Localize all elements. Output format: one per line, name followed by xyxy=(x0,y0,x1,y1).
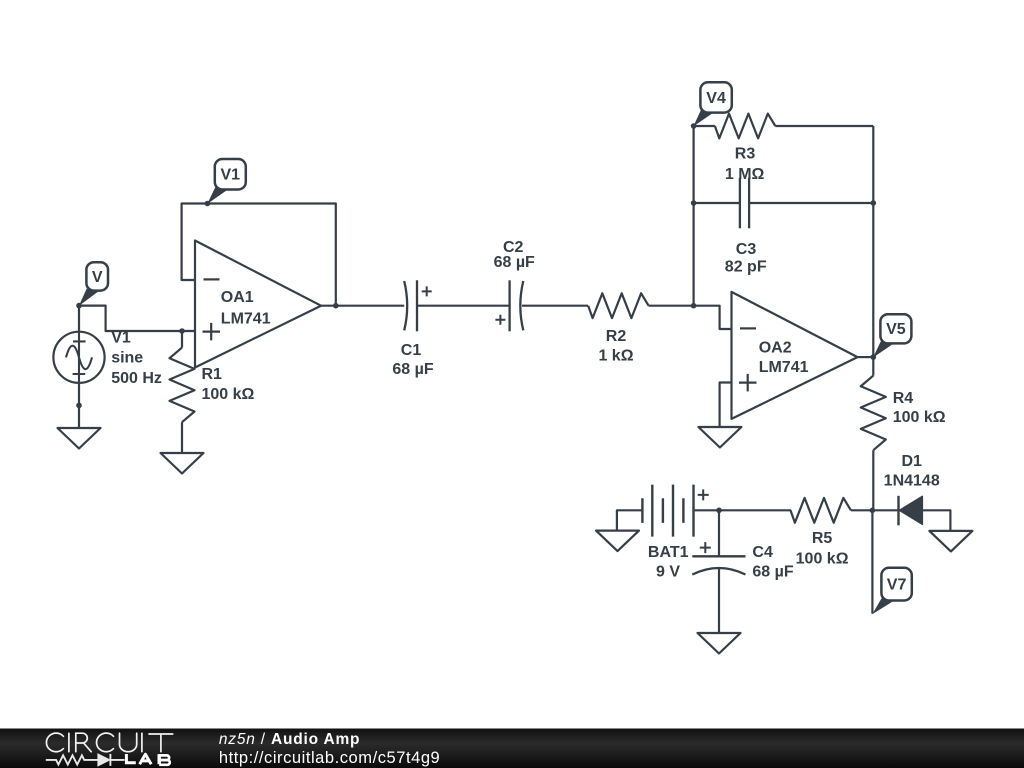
value label C1 68 µF xyxy=(392,342,433,378)
svg-text:V7: V7 xyxy=(887,577,907,594)
resistor R2 xyxy=(588,293,648,318)
wire OA2 noninverting input to ground xyxy=(720,383,732,428)
voltage source V1 (sine, 500 Hz) xyxy=(53,332,104,383)
wire battery node to R5 xyxy=(719,509,791,511)
junction node OA1 output node xyxy=(333,303,339,309)
op-amp OA1 LM741 xyxy=(195,241,321,368)
wire C4 to ground xyxy=(718,569,720,633)
probe V tail xyxy=(79,289,99,306)
junction node at V1 top / probe V xyxy=(76,303,82,309)
wire R5 to D1 node xyxy=(851,509,873,511)
capacitor C3 (82 pF) xyxy=(740,178,749,229)
part label OA1 LM741 xyxy=(221,289,271,327)
wire C3 to right rail xyxy=(749,202,873,204)
junction node R3 left node / probe V4 xyxy=(691,123,697,129)
wire R2 to OA2 inverting node xyxy=(649,305,694,307)
wire OA1 inverting input feedback to output xyxy=(182,204,336,306)
wire battery node down to C4 xyxy=(718,510,720,556)
svg-text:OA2: OA2 xyxy=(759,340,792,357)
wire D1 anode to ground xyxy=(922,510,950,531)
probe V7 flag box xyxy=(881,568,911,601)
svg-text:LM741: LM741 xyxy=(759,359,809,376)
OA1 inverting input pin (-) xyxy=(204,278,220,280)
C4 plus terminal mark xyxy=(700,542,711,553)
ground (below R1) xyxy=(161,453,204,474)
wire OA1 output to C1 xyxy=(321,305,404,307)
junction node OA2 output node xyxy=(871,354,877,360)
junction node V1 probe attach on feedback wire xyxy=(205,201,211,207)
resistor R5 xyxy=(791,498,851,523)
ground (D1 anode) xyxy=(929,531,972,552)
value label C2 68 µF xyxy=(494,239,535,271)
wire D1 node down to probe V7 xyxy=(871,510,873,613)
svg-text:82 pF: 82 pF xyxy=(725,258,767,275)
CircuitLab logo: CIRCUIT wordmark xyxy=(46,733,172,752)
wire left rail to C3 xyxy=(694,202,740,204)
svg-text:nz5n / Audio Amp: nz5n / Audio Amp xyxy=(219,731,360,748)
svg-text:500 Hz: 500 Hz xyxy=(111,370,162,387)
wire R4 to D1 node xyxy=(872,450,874,510)
capacitor C4 (polarized, 68 uF) xyxy=(692,542,745,574)
wire left rail to R3 xyxy=(694,125,715,127)
diode D1 1N4148 xyxy=(899,496,923,526)
svg-text:C3: C3 xyxy=(736,241,757,258)
CircuitLab logo: LAB wordmark xyxy=(126,754,169,765)
wire OA2 inverting input stub xyxy=(694,306,732,329)
svg-text:100 kΩ: 100 kΩ xyxy=(796,551,849,568)
probe V4 flag box xyxy=(700,82,731,112)
svg-text:100 kΩ: 100 kΩ xyxy=(893,409,946,426)
wire left feedback rail xyxy=(692,126,694,306)
value label R4 100 kΩ xyxy=(893,390,946,426)
resistor R1 xyxy=(170,348,195,423)
svg-text:sine: sine xyxy=(111,350,143,367)
svg-text:V4: V4 xyxy=(706,90,726,107)
svg-text:1N4148: 1N4148 xyxy=(884,473,940,490)
svg-text:1 MΩ: 1 MΩ xyxy=(725,166,765,183)
svg-text:D1: D1 xyxy=(901,453,922,470)
svg-text:C4: C4 xyxy=(752,544,773,561)
probe V4 tail xyxy=(693,110,713,126)
svg-text:LM741: LM741 xyxy=(221,310,271,327)
wire OA1 + input to R1 xyxy=(181,331,183,348)
junction node C3 left node xyxy=(691,200,697,206)
OA2 inverting input pin (-) xyxy=(740,327,756,329)
svg-text:9 V: 9 V xyxy=(656,563,680,580)
svg-text:68 µF: 68 µF xyxy=(494,254,535,271)
ground (OA2 noninverting input) xyxy=(698,427,741,448)
probe V5 flag box xyxy=(880,314,911,343)
capacitor C1 (polarized, 68 uF) xyxy=(404,280,432,331)
value label C4 68 µF xyxy=(752,544,793,580)
op-amp OA2 LM741 xyxy=(732,292,858,419)
probe V5 tail xyxy=(873,341,893,357)
svg-text:BAT1: BAT1 xyxy=(648,544,689,561)
ground (BAT1 negative) xyxy=(596,531,639,552)
probe V1 tail xyxy=(207,187,227,204)
OA2 noninverting input pin (+) xyxy=(739,374,757,392)
svg-text:V1: V1 xyxy=(221,167,241,184)
ground (below C4) xyxy=(698,633,741,654)
svg-text:R4: R4 xyxy=(893,390,914,407)
probe V7 tail xyxy=(872,598,893,614)
svg-text:68 µF: 68 µF xyxy=(752,563,793,580)
svg-text:OA1: OA1 xyxy=(221,289,254,306)
wire right feedback rail xyxy=(872,126,874,357)
ground (below source V1) xyxy=(58,428,101,449)
junction node BAT1/C4/R5 node xyxy=(716,508,722,514)
junction node at V1 bottom xyxy=(76,403,82,409)
wire BAT1 positive to node xyxy=(694,509,720,511)
svg-text:C1: C1 xyxy=(401,342,422,359)
value label V1 sine 500 Hz xyxy=(111,329,162,387)
wire BAT1 negative to ground xyxy=(617,510,643,530)
svg-text:R2: R2 xyxy=(606,328,627,345)
wire R3 to right rail xyxy=(775,125,873,127)
svg-text:100 kΩ: 100 kΩ xyxy=(202,386,255,403)
junction node R4/R5/D1 node xyxy=(870,508,876,514)
wire probe-V node to OA1 noninverting input xyxy=(79,306,195,331)
svg-text:R1: R1 xyxy=(202,366,223,383)
svg-text:68 µF: 68 µF xyxy=(392,361,433,378)
wire R1 to ground xyxy=(181,422,183,453)
junction node C3 right node xyxy=(871,200,877,206)
value label R1 100 kΩ xyxy=(202,366,255,403)
junction node OA2 inverting input node xyxy=(691,303,697,309)
wire OA2 output to R4 xyxy=(872,357,874,376)
svg-text:R3: R3 xyxy=(735,146,756,163)
probe V1 flag box xyxy=(215,159,246,190)
footer bar xyxy=(0,729,1024,768)
part label BAT1 9 V xyxy=(648,544,689,580)
battery BAT1 9 V xyxy=(642,485,708,537)
part label D1 1N4148 xyxy=(884,453,940,490)
svg-text:V: V xyxy=(92,269,103,286)
resistor R3 xyxy=(715,114,775,139)
value label R2 1 kΩ xyxy=(598,328,633,364)
svg-text:1 kΩ: 1 kΩ xyxy=(598,348,633,365)
wire C1 to C2 xyxy=(417,305,510,307)
wire OA2 output stub xyxy=(858,356,874,358)
capacitor C2 (polarized, 68 uF) xyxy=(495,280,523,331)
BAT1 plus terminal mark xyxy=(698,489,709,500)
svg-text:V5: V5 xyxy=(886,321,906,338)
value label R3 1 MΩ xyxy=(725,146,765,183)
part label OA2 LM741 xyxy=(759,340,809,376)
value label R5 100 kΩ xyxy=(796,530,849,567)
wire C2 to R2 xyxy=(522,305,588,307)
value label C3 82 pF xyxy=(725,241,767,275)
svg-text:V1: V1 xyxy=(111,329,131,346)
CircuitLab logo: resistor-diode glyph xyxy=(46,754,125,766)
wire node to D1 cathode xyxy=(872,509,897,511)
probe V flag box xyxy=(86,262,108,290)
resistor R4 xyxy=(861,376,886,451)
svg-text:R5: R5 xyxy=(812,530,833,547)
junction node OA1 noninverting input node xyxy=(179,328,185,334)
svg-text:http://circuitlab.com/c57t4g9: http://circuitlab.com/c57t4g9 xyxy=(219,749,440,767)
OA1 noninverting input pin (+) xyxy=(203,323,221,341)
wire V1 top terminal down through source to ground xyxy=(78,306,80,428)
